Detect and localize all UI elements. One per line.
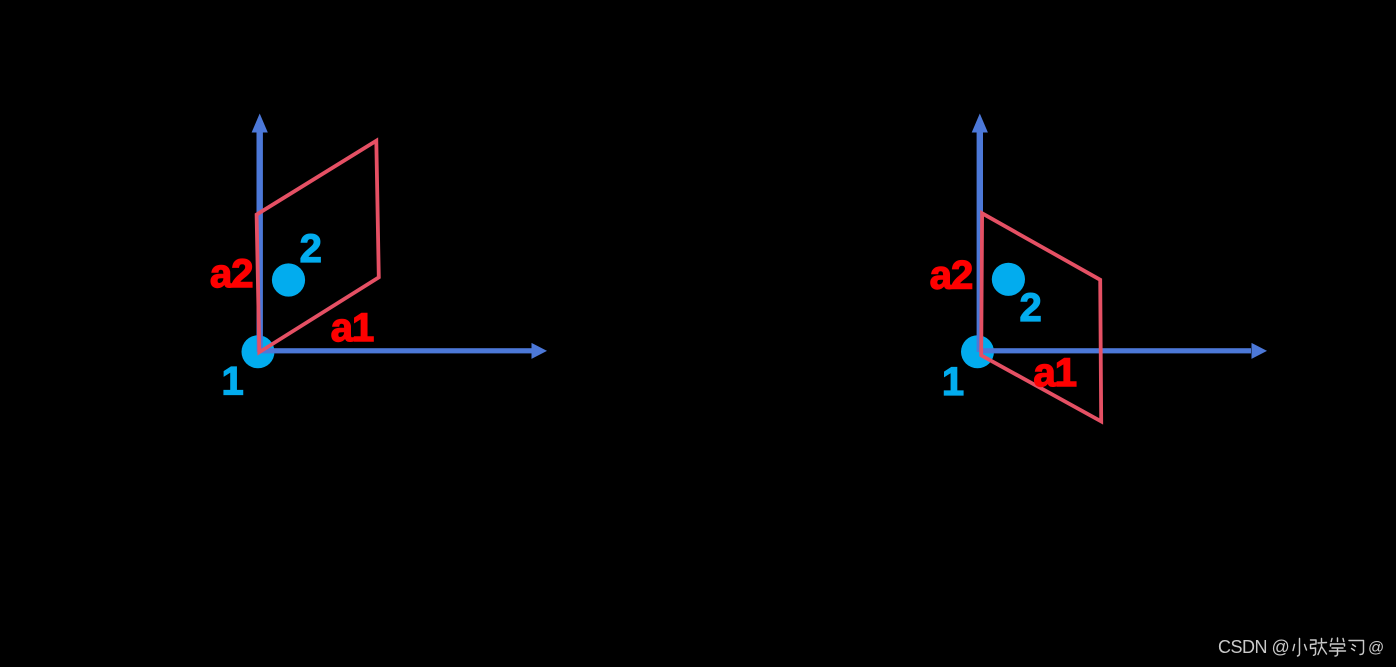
char xue [1330,638,1346,656]
svg-text:a1: a1 [331,306,374,350]
char zhang [1311,639,1327,656]
svg-text:1: 1 [221,360,243,404]
right diagram: y-axis arrow (blue) [972,114,988,353]
char xi [1349,641,1364,655]
right diagram: x-axis arrow (blue) [981,343,1267,359]
svg-text:2: 2 [300,227,322,271]
svg-text:a1: a1 [1034,351,1077,395]
right diagram: unit-cell parallelogram (red outline) [981,213,1101,421]
left diagram: y-axis arrow (blue) [252,114,268,353]
right diagram: lattice point 2 (cyan dot inside cell) [992,263,1025,296]
left diagram: x-axis arrow (blue) [259,343,547,359]
left diagram: lattice point 1 (cyan dot at origin) [242,335,275,368]
svg-text:CSDN @: CSDN @ [1218,637,1289,657]
char xiao [1293,639,1307,657]
svg-text:a2: a2 [210,252,253,296]
right diagram: lattice point 1 (cyan dot at origin) [961,335,994,368]
watermark: Chinese characters drawn as strokes [1293,638,1364,656]
svg-text:a2: a2 [930,254,973,298]
svg-text:@: @ [1368,640,1384,657]
left diagram: lattice point 2 (cyan dot inside cell) [272,263,305,296]
left diagram: unit-cell parallelogram (red outline) [257,141,379,352]
svg-text:1: 1 [942,360,964,404]
svg-text:2: 2 [1019,286,1041,330]
